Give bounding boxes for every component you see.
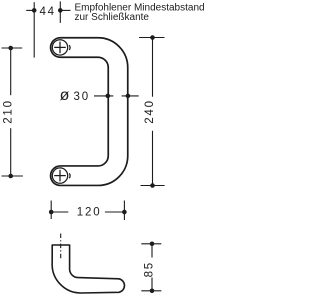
dimension 44 extension line left (door closing edge): [33, 2, 35, 57]
svg-text:85: 85: [143, 261, 155, 277]
svg-text:120: 120: [77, 207, 102, 219]
svg-text:30: 30: [74, 91, 90, 103]
dimension 240 line lower segment: [152, 131, 154, 186]
handle front view tube outline: [60, 48, 118, 176]
dimension 44 tick left: [26, 9, 35, 11]
bottom mounting rosette circle: [52, 168, 67, 183]
dimension d30 dot left: [106, 94, 111, 99]
dimension 120 tick left: [50, 201, 52, 220]
svg-text:44: 44: [39, 6, 55, 18]
dimension 120 dot right: [122, 210, 127, 215]
dimension d30 line right: [122, 95, 139, 97]
dimension 44 extension line right: [59, 1, 61, 23]
dimension 210 tick bottom: [2, 175, 23, 177]
dimension d30 dot right: [126, 94, 131, 99]
bottom mounting cross: [54, 175, 66, 177]
handle front view tube fill: [60, 48, 118, 176]
svg-text:zur Schließkante: zur Schließkante: [75, 12, 150, 23]
dimension 85 line lower segment: [151, 278, 153, 291]
dimension 85 tick top: [141, 243, 161, 245]
dimension 210 line lower segment: [10, 128, 12, 176]
dimension 120 line left segment: [51, 211, 68, 213]
dimension 210 tick top: [2, 47, 23, 49]
dimension 44 leader tick right: [60, 9, 71, 11]
dimension 240 tick bottom: [141, 185, 165, 187]
svg-text:240: 240: [144, 99, 156, 124]
dimension 240 tick top: [139, 37, 165, 39]
bottom cap edge arc: [68, 173, 71, 178]
dimension 44 dot right: [58, 8, 63, 13]
dimension 240 dot top: [150, 35, 155, 40]
svg-text:210: 210: [3, 99, 15, 124]
side view center line (dash-dot): [60, 234, 62, 259]
dimension 120 dot left: [49, 210, 54, 215]
annotation text: [75, 2, 205, 23]
top mounting cross: [54, 46, 66, 48]
svg-text:ø: ø: [60, 87, 70, 104]
dimension d30 line left: [94, 95, 113, 97]
dimension 210 line upper segment: [10, 48, 12, 95]
dimension 210 dot bottom: [8, 174, 13, 179]
top mounting rosette circle: [52, 40, 67, 55]
dimension 120 line right segment: [105, 211, 125, 213]
dimension 240 dot bottom: [150, 183, 155, 188]
dimension 120 tick right: [123, 201, 125, 221]
dimension 85 tick bottom: [141, 290, 161, 292]
dimension 85 dot bottom: [150, 289, 155, 294]
dimension 44 dot left: [32, 8, 37, 13]
dimension 85 line upper segment: [151, 244, 153, 258]
dimension 210 dot top: [8, 46, 13, 51]
top cap edge arc: [68, 45, 71, 50]
dimension 85 dot top: [150, 242, 155, 247]
dimension 240 line upper segment: [152, 38, 154, 97]
handle side view outline: [52, 245, 124, 293]
